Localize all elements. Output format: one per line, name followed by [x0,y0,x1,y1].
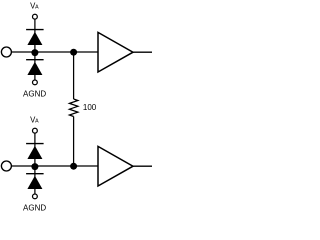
terminal VA top [33,14,38,19]
resistor R1 [69,99,78,117]
junction resistor bottom [70,163,77,170]
terminal AGND bottom [33,194,38,199]
wire output 2 [133,165,152,167]
diode D2 cathode bar [26,59,43,61]
svg-text:A: A [35,5,39,11]
junction diode stack bottom [31,163,38,170]
input terminal IN2 [1,161,11,171]
diode D2 [27,62,42,75]
svg-text:AGND: AGND [23,204,46,213]
wire vertical diode stack top [34,19,36,79]
junction resistor top [70,49,77,56]
diode D1 cathode bar [26,29,43,31]
op-amp U2 [98,146,133,186]
diode D4 [27,176,42,189]
junction diode stack top [31,49,38,56]
op-amp U1 [98,32,133,72]
wire input 2 [12,165,98,167]
diode D3 [27,146,42,159]
input terminal IN1 [1,47,11,57]
diode D4 cathode bar [26,173,43,175]
terminal VA bottom [33,128,38,133]
terminal AGND top [33,80,38,85]
diode D1 [27,32,42,45]
svg-text:100: 100 [83,103,97,112]
node VA (top) label [30,1,39,10]
svg-text:A: A [35,119,39,125]
diode D3 cathode bar [26,143,43,145]
svg-text:AGND: AGND [23,90,46,99]
wire input 1 [12,51,98,53]
node VA (bottom) label [30,115,39,124]
wire resistor bottom lead [73,117,75,167]
wire output 1 [133,51,152,53]
wire vertical diode stack bottom [34,133,36,193]
wire resistor top lead [73,52,75,99]
